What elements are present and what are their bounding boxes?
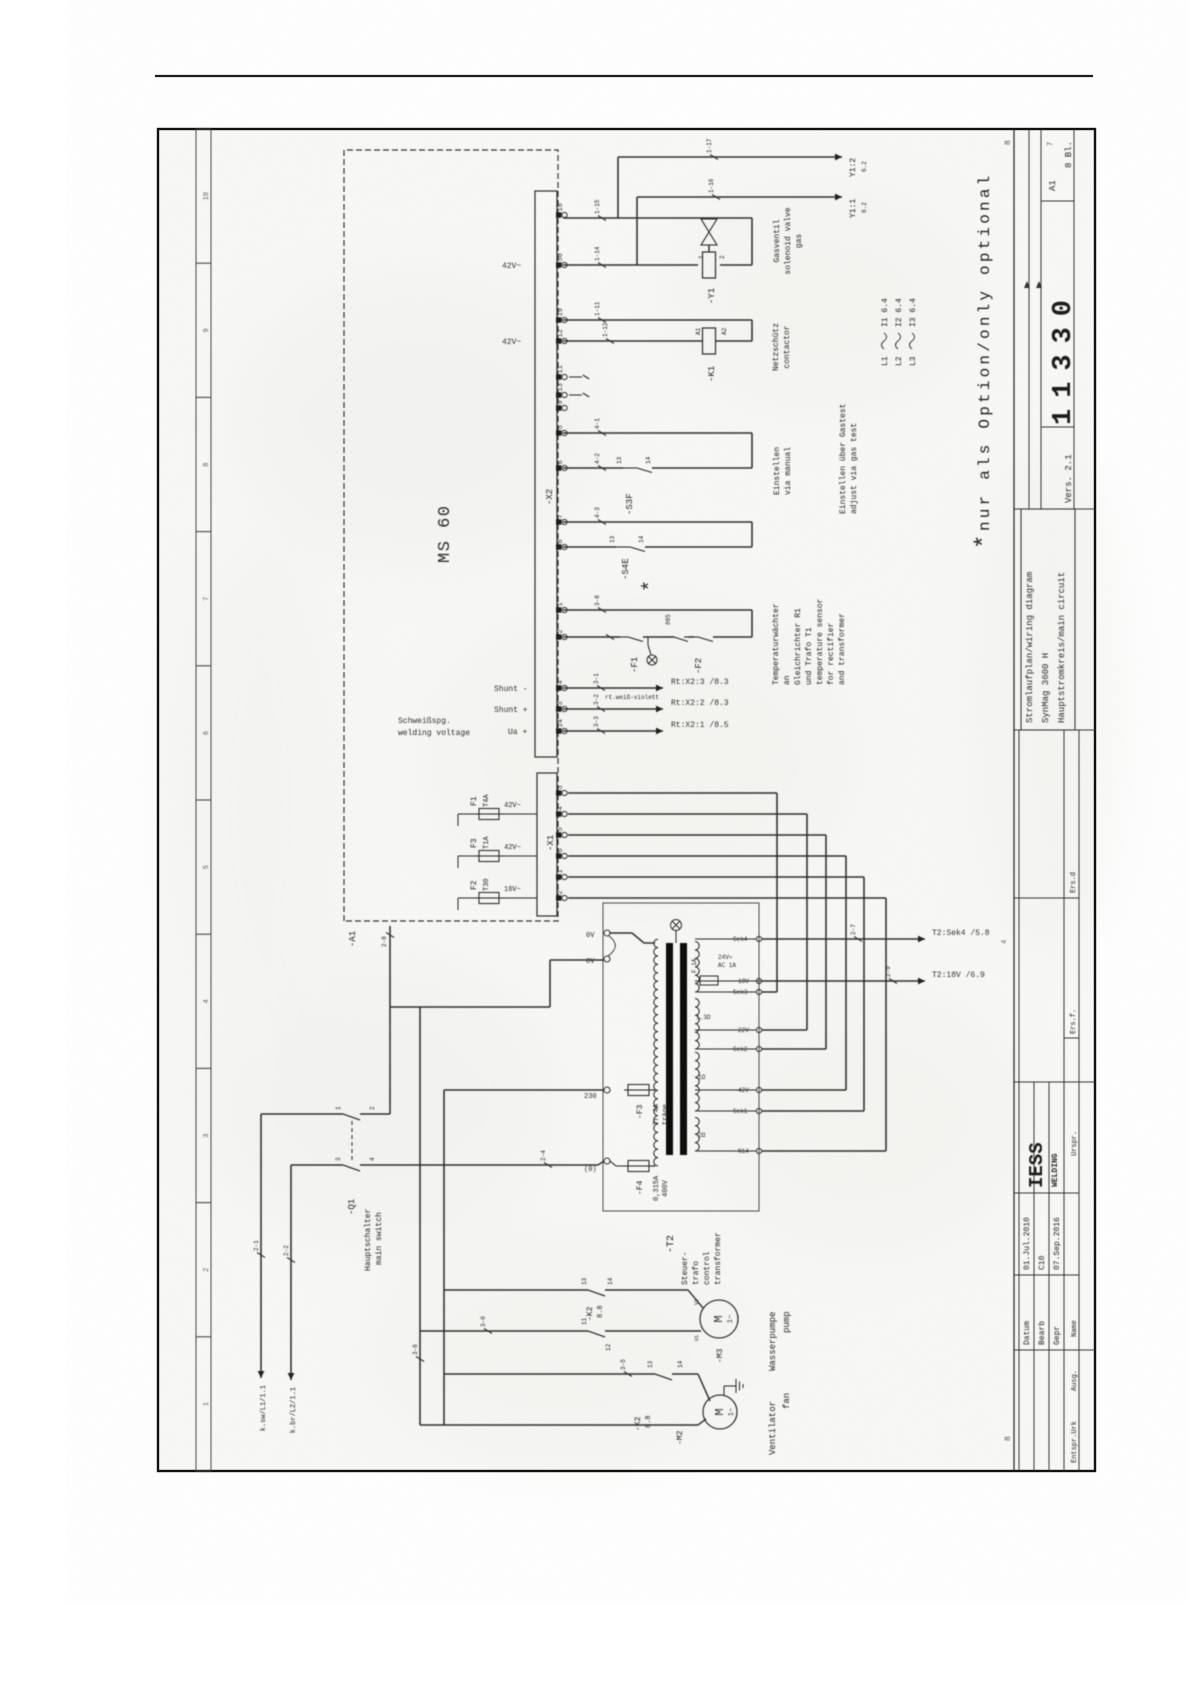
svg-text:3: 3 xyxy=(557,701,565,705)
svg-text:8: 8 xyxy=(557,539,565,543)
wire Shunt+ to arrow xyxy=(563,708,663,710)
svg-text:0V: 0V xyxy=(586,932,595,940)
switch contact S3F xyxy=(623,467,637,469)
motor M3 pump xyxy=(700,1300,738,1338)
svg-text:2-8: 2-8 xyxy=(381,936,388,947)
fuse F3 primary xyxy=(628,1085,649,1096)
core ground symbol xyxy=(671,920,682,931)
svg-text:-F2: -F2 xyxy=(694,658,704,674)
svg-text:solenoid valve: solenoid valve xyxy=(784,207,793,274)
svg-text:1: 1 xyxy=(203,1402,211,1406)
title text Stromlaufplan/wiring diagram xyxy=(1021,509,1075,730)
svg-text:-X2: -X2 xyxy=(545,489,555,505)
svg-text:11: 11 xyxy=(557,365,565,373)
svg-text:Schweißspg.: Schweißspg. xyxy=(398,717,451,726)
T2 primary terminal 0V b xyxy=(604,956,610,962)
svg-text:Einstellen über Gastest: Einstellen über Gastest xyxy=(839,404,848,514)
svg-text:-Y1: -Y1 xyxy=(707,288,717,304)
svg-text:4-2: 4-2 xyxy=(594,453,601,464)
K2 contact fan xyxy=(655,1374,672,1380)
svg-text:3-1: 3-1 xyxy=(593,673,600,684)
svg-text:transformer: transformer xyxy=(714,1232,723,1285)
svg-text:2-9: 2-9 xyxy=(885,966,892,977)
svg-text:Shunt +: Shunt + xyxy=(494,706,528,715)
svg-text:4: 4 xyxy=(557,806,565,810)
F1F2 loop bottom wire xyxy=(751,610,753,637)
svg-text:13: 13 xyxy=(609,535,616,543)
svg-text:2Ω: 2Ω xyxy=(698,1132,706,1139)
temperature symbol F1 xyxy=(647,637,649,645)
svg-text:42V~: 42V~ xyxy=(502,338,521,347)
wire L1 from arrow xyxy=(260,1114,262,1378)
svg-text:Y1:1: Y1:1 xyxy=(849,199,858,218)
destination arrow Y1:2 xyxy=(835,154,842,161)
wire X1 pin to transformer tap xyxy=(568,834,826,836)
svg-text:adjust via gas test: adjust via gas test xyxy=(850,423,859,514)
svg-text:ϑ85: ϑ85 xyxy=(665,614,672,625)
svg-text:3-8: 3-8 xyxy=(594,595,601,606)
svg-text:L3: L3 xyxy=(909,356,918,366)
wire X2 pin7 down xyxy=(563,521,752,523)
svg-text:4: 4 xyxy=(203,999,211,1003)
fuse F1 on board xyxy=(458,813,479,815)
svg-text:50: 50 xyxy=(557,253,565,261)
svg-text:42V: 42V xyxy=(738,1087,749,1094)
gas valve symbol xyxy=(701,219,717,245)
svg-text:rt.weiß-violett: rt.weiß-violett xyxy=(605,694,659,701)
svg-text:400V: 400V xyxy=(662,1179,670,1197)
svg-text:4-1: 4-1 xyxy=(594,418,601,429)
svg-text:Netzschütz: Netzschütz xyxy=(772,323,781,371)
svg-text:an: an xyxy=(783,675,792,685)
svg-text:Hauptschalter: Hauptschalter xyxy=(364,1208,373,1271)
fan K2 branch xyxy=(444,1373,655,1375)
svg-text:42V~: 42V~ xyxy=(502,262,521,271)
svg-text:0V: 0V xyxy=(586,958,595,966)
svg-text:Ua +: Ua + xyxy=(508,728,527,737)
distribution wire y286 xyxy=(443,1090,445,1425)
wire X2 pin16 down xyxy=(563,217,752,219)
svg-text:3: 3 xyxy=(203,1133,211,1137)
destination arrow Y1:1 xyxy=(835,194,842,201)
svg-text:9: 9 xyxy=(557,400,565,404)
S3F loop bottom wire xyxy=(751,433,753,468)
wire X1 pin to transformer tap xyxy=(568,792,777,794)
svg-text:-T2: -T2 xyxy=(666,1235,677,1253)
svg-text:4: 4 xyxy=(1001,940,1009,944)
K1 loop bottom wire xyxy=(751,320,753,341)
svg-text:main switch: main switch xyxy=(375,1212,384,1265)
T2 primary winding xyxy=(654,939,658,1166)
svg-text:IESS: IESS xyxy=(1026,1142,1048,1188)
svg-text:0,315A: 0,315A xyxy=(653,1175,661,1201)
thermal contact F2 xyxy=(684,636,698,638)
svg-text:C10: C10 xyxy=(1038,1255,1047,1270)
svg-text:Sek4: Sek4 xyxy=(733,936,748,943)
scan sheet background tint xyxy=(159,130,1094,1470)
fuse F3 on board xyxy=(458,855,479,857)
svg-text:18V~: 18V~ xyxy=(504,886,521,894)
svg-text:-F4: -F4 xyxy=(636,1180,645,1195)
svg-text:M: M xyxy=(713,1408,727,1415)
svg-text:Ers.d: Ers.d xyxy=(1070,872,1078,893)
T2 core bars xyxy=(666,943,673,1155)
svg-text:Einstellen: Einstellen xyxy=(773,447,782,495)
svg-text:3-2: 3-2 xyxy=(593,694,600,705)
motor M2 fan xyxy=(703,1395,737,1429)
svg-text:13: 13 xyxy=(581,1277,588,1285)
svg-text:6: 6 xyxy=(557,848,565,852)
svg-text:for rectifier: for rectifier xyxy=(827,622,836,685)
X2 pins xyxy=(556,212,561,217)
pump K2 branch a xyxy=(444,1289,588,1291)
svg-text:Y1:2: Y1:2 xyxy=(849,158,858,177)
svg-text:trafo: trafo xyxy=(692,1261,701,1285)
terminal link xyxy=(608,936,615,956)
svg-text:16: 16 xyxy=(557,203,565,211)
svg-text:k.br/L2/1.1: k.br/L2/1.1 xyxy=(290,1387,298,1433)
coil Y1 xyxy=(703,252,716,278)
svg-text:Stromlaufplan/wiring diagram: Stromlaufplan/wiring diagram xyxy=(1025,572,1035,723)
svg-text:*: * xyxy=(972,535,999,549)
svg-text:1,3Ω: 1,3Ω xyxy=(696,1014,711,1021)
switch contact S4E xyxy=(616,546,630,548)
svg-text:1~: 1~ xyxy=(728,1408,736,1416)
svg-text:Temperaturwächter: Temperaturwächter xyxy=(772,603,781,685)
wire Ua+ to arrow xyxy=(563,730,663,732)
wire junction to Y1:2 arrow xyxy=(617,157,619,218)
svg-text:-S4E: -S4E xyxy=(621,558,631,580)
wire 0V to winding xyxy=(610,932,632,934)
svg-text:Datum: Datum xyxy=(1023,1321,1032,1345)
coil K1 xyxy=(703,328,716,354)
svg-text:-M3: -M3 xyxy=(716,1348,725,1363)
svg-text:01.Jul.2010: 01.Jul.2010 xyxy=(1023,1217,1032,1270)
svg-text:und Trafo T1: und Trafo T1 xyxy=(805,627,814,685)
svg-text:-F3: -F3 xyxy=(636,1104,645,1119)
svg-text:3-0: 3-0 xyxy=(480,1316,487,1327)
wire number 2-1 xyxy=(257,1253,265,1258)
svg-text:M: M xyxy=(712,1315,726,1322)
connector bar X2 xyxy=(535,191,557,757)
svg-text:2-4: 2-4 xyxy=(540,1150,547,1161)
svg-text:5: 5 xyxy=(203,865,211,869)
svg-text:T1A: T1A xyxy=(483,836,491,849)
svg-text:-K1: -K1 xyxy=(707,366,717,382)
svg-text:4: 4 xyxy=(557,680,565,684)
svg-text:2: 2 xyxy=(369,1106,376,1110)
wire junction to Y1:1 arrow xyxy=(636,197,638,265)
wire T2 18V to arrow xyxy=(762,980,925,982)
svg-text:A1: A1 xyxy=(1048,180,1058,191)
svg-text:control: control xyxy=(703,1251,712,1285)
svg-text:Rt:X2:2 /8.3: Rt:X2:2 /8.3 xyxy=(671,699,729,708)
svg-text:welding voltage: welding voltage xyxy=(398,729,470,738)
svg-text:V1: V1 xyxy=(694,1299,700,1305)
svg-text:WELDING: WELDING xyxy=(1051,1153,1060,1187)
svg-text:8.8: 8.8 xyxy=(597,1305,605,1318)
stub pins xyxy=(569,376,582,378)
svg-text:14: 14 xyxy=(677,1360,684,1368)
Q1 contact 1 xyxy=(343,1114,360,1120)
fuse F2 on board xyxy=(458,897,479,899)
svg-text:1~: 1~ xyxy=(727,1315,735,1323)
svg-text:L1: L1 xyxy=(881,356,890,366)
svg-text:1: 1 xyxy=(557,869,565,873)
svg-text:6.2: 6.2 xyxy=(861,202,868,213)
svg-text:13: 13 xyxy=(557,383,565,391)
svg-text:1-15: 1-15 xyxy=(594,199,601,214)
svg-text:230: 230 xyxy=(584,1093,597,1101)
K2 contact pump xyxy=(588,1290,605,1296)
svg-text:*: * xyxy=(640,580,663,592)
svg-text:1: 1 xyxy=(335,1106,342,1110)
svg-text:-K2: -K2 xyxy=(634,1416,643,1431)
svg-text:Ventilator: Ventilator xyxy=(768,1401,778,1455)
svg-text:1: 1 xyxy=(698,255,705,259)
left drop to fan xyxy=(420,1424,698,1426)
svg-text:nur als Option/only optional: nur als Option/only optional xyxy=(976,173,994,531)
T2 secondary winding sections xyxy=(695,942,699,1151)
distribution wire y262 xyxy=(419,1007,421,1425)
svg-text:2: 2 xyxy=(203,1268,211,1272)
svg-text:contactor: contactor xyxy=(783,325,792,368)
wire 230V drop to T2 xyxy=(444,1089,604,1091)
svg-text:SynMag 3600 H: SynMag 3600 H xyxy=(1041,653,1051,723)
contact theta xyxy=(660,636,674,638)
svg-text:Ausg.: Ausg. xyxy=(1071,1370,1079,1391)
svg-text:14: 14 xyxy=(638,535,645,543)
svg-text:07.Sep.2016: 07.Sep.2016 xyxy=(1053,1217,1062,1270)
svg-text:Hauptstromkreis/main circuit: Hauptstromkreis/main circuit xyxy=(1057,572,1067,723)
svg-text:2: 2 xyxy=(557,629,565,633)
svg-text:13: 13 xyxy=(647,1360,654,1368)
wire X1 pin to transformer tap xyxy=(568,876,864,878)
svg-text:8: 8 xyxy=(1004,1436,1013,1441)
svg-text:1-16: 1-16 xyxy=(708,178,715,193)
wire fuse F2 to X1 xyxy=(503,897,537,899)
svg-text:8 Bl.: 8 Bl. xyxy=(1064,141,1074,168)
svg-text:T4A: T4A xyxy=(483,794,491,807)
wire X2 pin12 down xyxy=(563,340,703,342)
wire X2 pin1 down xyxy=(563,609,752,611)
wire number 1-14 xyxy=(598,263,606,268)
svg-text:-M2: -M2 xyxy=(676,1430,685,1445)
wire F4 to winding xyxy=(653,1165,655,1167)
MS 60 board dashed outline A1 xyxy=(344,150,558,921)
wire fuse F3 to X1 xyxy=(503,855,537,857)
wire X1 pin to transformer tap xyxy=(568,813,807,815)
svg-text:5: 5 xyxy=(557,827,565,831)
Q1 mechanical link dashed xyxy=(351,1119,353,1160)
svg-text:22V: 22V xyxy=(738,1027,749,1034)
T2 secondary taps xyxy=(695,938,756,940)
scan grain xyxy=(159,130,1094,1470)
svg-text:-A1: -A1 xyxy=(348,931,358,947)
svg-text:2-7: 2-7 xyxy=(850,924,857,935)
svg-text:temperature sensor: temperature sensor xyxy=(816,598,825,685)
svg-text:A2: A2 xyxy=(721,327,728,335)
X1 pins xyxy=(556,790,561,795)
svg-text:13: 13 xyxy=(616,456,623,464)
Q1 pole 2 vertical xyxy=(291,1164,343,1166)
Q1 pole 1 vertical xyxy=(261,1113,343,1115)
thermal trip mark xyxy=(606,635,614,640)
svg-text:7: 7 xyxy=(557,514,565,518)
svg-text:1-17: 1-17 xyxy=(706,138,713,153)
destination arrow L2 xyxy=(288,1373,295,1380)
wire Shunt- to arrow xyxy=(563,687,663,689)
svg-text:4: 4 xyxy=(369,1157,376,1161)
svg-text:1-12: 1-12 xyxy=(602,322,609,337)
wire X2 pin6 down xyxy=(563,467,623,469)
wire number 2-4 xyxy=(544,1163,552,1168)
svg-text:I2 6.4: I2 6.4 xyxy=(895,298,904,327)
ground M2 xyxy=(723,1386,725,1395)
connector bar X1 xyxy=(537,773,557,916)
svg-text:Shunt -: Shunt - xyxy=(494,685,528,694)
svg-text:(0): (0) xyxy=(584,1166,597,1174)
svg-text:6: 6 xyxy=(557,460,565,464)
svg-text:3-5: 3-5 xyxy=(620,1359,627,1370)
pump branch b xyxy=(420,1330,588,1332)
svg-text:AC 1A: AC 1A xyxy=(718,962,736,969)
svg-text:Gasventil: Gasventil xyxy=(773,219,782,262)
svg-text:14: 14 xyxy=(557,719,565,727)
svg-text:I1 6.4: I1 6.4 xyxy=(881,298,890,327)
svg-text:Sek2: Sek2 xyxy=(733,1046,748,1053)
svg-text:9: 9 xyxy=(203,328,211,332)
svg-text:14: 14 xyxy=(607,1277,614,1285)
Q1 contact 2 xyxy=(343,1165,360,1171)
fuse F4 primary xyxy=(628,1161,649,1172)
svg-text:Gepr: Gepr xyxy=(1053,1326,1062,1345)
svg-text:Vers. 2.1: Vers. 2.1 xyxy=(1064,454,1074,503)
svg-text:Bearb: Bearb xyxy=(1038,1321,1047,1345)
svg-text:F2: F2 xyxy=(470,880,479,890)
svg-text:-X1: -X1 xyxy=(546,835,556,851)
svg-text:10: 10 xyxy=(203,192,211,200)
svg-text:8: 8 xyxy=(203,462,211,466)
svg-text:Name: Name xyxy=(1071,1320,1079,1337)
secondary fuse F 1A xyxy=(695,980,700,982)
transformer T2 box xyxy=(603,903,759,1211)
svg-text:3: 3 xyxy=(335,1157,342,1161)
svg-text:Urspr.: Urspr. xyxy=(1071,1131,1079,1156)
svg-text:pump: pump xyxy=(782,1311,792,1333)
fold marks xyxy=(1024,281,1030,288)
svg-text:4-3: 4-3 xyxy=(594,507,601,518)
svg-text:12: 12 xyxy=(605,1343,612,1351)
svg-text:6: 6 xyxy=(203,731,211,735)
grid ruler top strip xyxy=(195,129,197,1471)
destination arrow L1 xyxy=(258,1371,265,1378)
svg-text:2: 2 xyxy=(557,890,565,894)
svg-text:A1: A1 xyxy=(695,327,702,335)
svg-text:8: 8 xyxy=(1004,140,1013,145)
svg-text:42V~: 42V~ xyxy=(504,844,521,852)
wire X2 pin8 down xyxy=(563,546,616,548)
svg-text:1-14: 1-14 xyxy=(594,246,601,261)
wire fuse F1 to X1 xyxy=(503,813,537,815)
svg-text:1-11: 1-11 xyxy=(594,301,601,316)
svg-text:Steuer-: Steuer- xyxy=(681,1251,690,1285)
svg-text:12: 12 xyxy=(557,329,565,337)
top rule xyxy=(155,75,1093,77)
wire number 2-2 xyxy=(287,1258,295,1263)
wire X2 pin19 down xyxy=(563,319,752,321)
T2 primary terminal 0V a xyxy=(604,930,610,936)
wire X1 pin to transformer tap xyxy=(568,855,846,857)
svg-text:F1: F1 xyxy=(470,796,479,806)
wire F3 to winding xyxy=(653,1089,655,1091)
svg-text:L2: L2 xyxy=(895,356,904,366)
svg-text:6.2: 6.2 xyxy=(861,161,868,172)
S4E loop bottom wire xyxy=(751,522,753,547)
svg-text:Sek3: Sek3 xyxy=(733,989,748,996)
svg-text:T2:18V /6.9: T2:18V /6.9 xyxy=(932,971,985,980)
svg-text:Ers.f.: Ers.f. xyxy=(1070,1009,1078,1034)
svg-text:7: 7 xyxy=(1047,142,1055,146)
svg-text:3-3: 3-3 xyxy=(593,716,600,727)
T2 primary terminal (0) xyxy=(604,1158,610,1164)
svg-text:7: 7 xyxy=(203,597,211,601)
svg-text:18V: 18V xyxy=(738,978,749,985)
svg-text:F3: F3 xyxy=(470,838,479,848)
svg-text:Gleichrichter R1: Gleichrichter R1 xyxy=(794,608,803,685)
svg-text:T2:Sek4 /5.8: T2:Sek4 /5.8 xyxy=(932,929,990,938)
svg-text:14: 14 xyxy=(645,456,652,464)
svg-text:1Ω: 1Ω xyxy=(698,1074,706,1081)
T2 primary terminal 230 xyxy=(604,1087,610,1093)
wire L1 to x464 xyxy=(389,926,391,1114)
wire L2 from arrow xyxy=(290,1165,292,1380)
svg-text:19: 19 xyxy=(557,308,565,316)
svg-text:gas: gas xyxy=(795,234,804,249)
svg-text:I3 6.4: I3 6.4 xyxy=(909,298,918,327)
svg-text:fan: fan xyxy=(782,1393,792,1409)
svg-text:Wasserpumpe: Wasserpumpe xyxy=(768,1312,778,1371)
svg-text:Rt:X2:1 /8.5: Rt:X2:1 /8.5 xyxy=(671,721,729,730)
svg-text:3: 3 xyxy=(557,785,565,789)
wire X2 pin5 down xyxy=(563,432,752,434)
svg-text:-F1: -F1 xyxy=(630,657,640,673)
svg-text:24V≈: 24V≈ xyxy=(718,954,733,961)
wire number 1-15 xyxy=(598,216,606,221)
svg-text:via manual: via manual xyxy=(784,447,793,495)
svg-text:and transformer: and transformer xyxy=(838,613,847,685)
wire X1 pin to transformer tap xyxy=(568,897,886,899)
svg-text:Entspr.Urk: Entspr.Urk xyxy=(1071,1421,1079,1463)
wire X2 pin50 down xyxy=(563,264,698,266)
svg-text:U1: U1 xyxy=(694,1335,700,1341)
svg-text:3-6: 3-6 xyxy=(412,1344,419,1355)
wire X2 pin2 down xyxy=(563,636,620,638)
valve loop bottom wire xyxy=(751,218,753,265)
svg-text:1: 1 xyxy=(557,602,565,606)
svg-text:2: 2 xyxy=(719,255,726,259)
svg-text:2-2: 2-2 xyxy=(283,1245,290,1256)
wire number 3-6 xyxy=(416,1357,424,1362)
outer frame xyxy=(158,129,1095,1471)
svg-text:11330: 11330 xyxy=(1049,289,1079,425)
svg-text:-S3F: -S3F xyxy=(625,493,635,515)
svg-text:k.sw/L1/1.1: k.sw/L1/1.1 xyxy=(260,1385,268,1431)
wire number 3-0 xyxy=(484,1329,492,1334)
svg-text:8.8: 8.8 xyxy=(645,1415,653,1428)
svg-text:Sek1: Sek1 xyxy=(733,1108,748,1115)
contact 11-14 xyxy=(588,1331,605,1337)
